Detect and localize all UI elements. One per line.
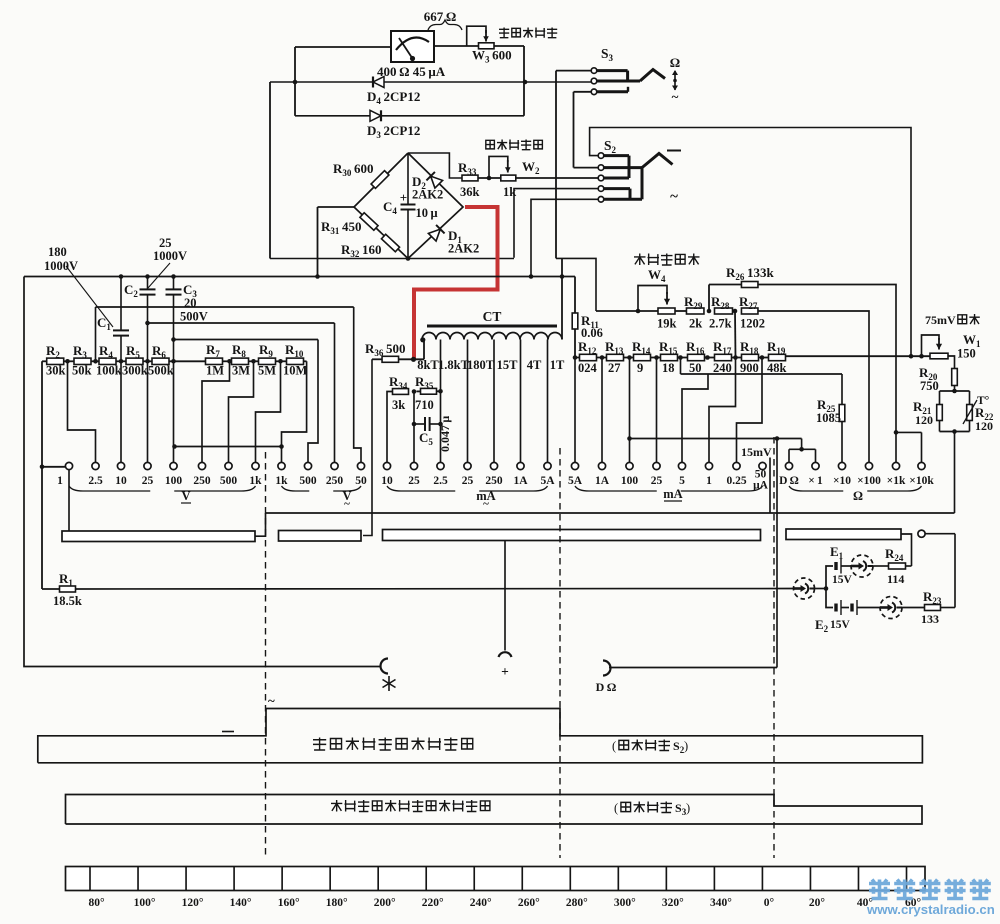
wire: R15/R16 junction down to R25 feed rail xyxy=(680,358,682,375)
switch S2 blade xyxy=(642,154,673,168)
svg-text:CT: CT xyxy=(483,309,502,324)
thermistor R22 120 with T label xyxy=(969,391,971,404)
resistor R16 50 xyxy=(688,354,705,360)
svg-text:50: 50 xyxy=(355,475,367,487)
wire: bus to R11 xyxy=(574,277,576,314)
wire: branch to terminal 5mA xyxy=(682,374,708,463)
svg-text:2.5: 2.5 xyxy=(433,475,448,487)
svg-text:180T: 180T xyxy=(467,358,495,372)
current transformer CT winding xyxy=(422,333,562,340)
battery E2 15V (two cells) xyxy=(826,589,833,608)
section brace V xyxy=(69,486,150,491)
wire + junction W2 wiper node xyxy=(478,177,501,179)
wire: W3 right down to D4/D3 lines xyxy=(523,46,525,116)
resistor R18 900 xyxy=(742,354,759,360)
svg-text:25: 25 xyxy=(462,475,474,487)
resistor R27 1202 xyxy=(741,308,758,314)
potentiometer W1 150 with wiper xyxy=(930,353,948,359)
wire: line1 to terminal 50~ xyxy=(354,307,361,463)
wire: R7/R8 junction to terminal 250 xyxy=(202,361,230,462)
current transformer CT core xyxy=(427,325,557,328)
wire: pair bottom to slider rail xyxy=(940,431,970,433)
svg-text:15V: 15V xyxy=(832,574,853,586)
resistor R36 500 xyxy=(372,358,382,360)
svg-text:10M: 10M xyxy=(283,364,308,378)
svg-text:): ) xyxy=(684,739,688,753)
svg-text:200°: 200° xyxy=(374,897,396,909)
svg-text:80°: 80° xyxy=(88,897,105,909)
svg-text:5A: 5A xyxy=(568,475,583,487)
svg-text:9: 9 xyxy=(637,361,643,375)
svg-text:~: ~ xyxy=(483,498,489,510)
diode D1 2AK2 (bridge bottom-right) xyxy=(428,225,445,242)
svg-text:300°: 300° xyxy=(614,897,636,909)
resistor R4 100k xyxy=(99,358,116,364)
capacitor C5 0.047u xyxy=(413,392,415,463)
svg-text:25: 25 xyxy=(159,236,172,250)
resistor R35 710 xyxy=(421,388,437,394)
svg-text:180°: 180° xyxy=(326,897,348,909)
section brace ohm xyxy=(789,486,843,491)
connector plug P3 xyxy=(880,597,902,619)
svg-text:150: 150 xyxy=(957,347,976,361)
svg-text:1: 1 xyxy=(706,475,712,487)
svg-text:2AK2: 2AK2 xyxy=(448,242,479,256)
wire: R1 line to battery plug xyxy=(76,588,794,591)
svg-text:30k: 30k xyxy=(46,364,66,378)
cam ohm AC/DC control profile (S3) xyxy=(66,795,923,825)
slider bar V~ range xyxy=(279,531,362,542)
svg-text:8kT: 8kT xyxy=(417,358,439,372)
svg-text:19k: 19k xyxy=(657,317,677,331)
wire: C1 column to terminal 10 xyxy=(120,361,122,462)
wire: mA slider bar center tap to + socket xyxy=(504,541,506,651)
resistor R19 48k xyxy=(769,354,786,360)
svg-text:+: + xyxy=(501,664,509,679)
resistor R7 1M xyxy=(206,358,223,364)
svg-text:160°: 160° xyxy=(278,897,300,909)
resistor R31 450 (bridge bottom-left) xyxy=(360,213,378,230)
wire: bridge left node to bus xyxy=(318,206,355,208)
wire: W2 to S2 contact3 xyxy=(516,177,598,179)
svg-text:120: 120 xyxy=(975,419,993,433)
wire: S2 contact4 to bridge bottom xyxy=(514,189,598,258)
svg-text:400 Ω 45 μA: 400 Ω 45 μA xyxy=(377,64,446,79)
resistor R29 2k xyxy=(686,308,704,314)
wire: D4 line left corner down to bridge bottom line xyxy=(269,82,271,259)
svg-text:~: ~ xyxy=(672,89,679,104)
wire: W4 row xyxy=(596,310,658,312)
svg-text:4T: 4T xyxy=(527,358,542,372)
svg-text:100: 100 xyxy=(165,475,183,487)
resistor R33 36k xyxy=(462,175,478,181)
svg-text:2.7k: 2.7k xyxy=(709,317,732,331)
svg-text:1000V: 1000V xyxy=(153,249,187,263)
wire: S2 contact1 feed from meter line xyxy=(590,128,911,357)
svg-text:710: 710 xyxy=(415,398,434,412)
junction battery node xyxy=(815,588,827,590)
svg-text:750: 750 xyxy=(920,379,939,393)
wire: CT secondary right end to bus xyxy=(561,258,563,339)
svg-text:18.5k: 18.5k xyxy=(53,594,82,608)
wire: R24 up to ohm slider bar xyxy=(906,565,912,567)
capacitor C4 10u electrolytic (bridge center) xyxy=(407,153,409,204)
wire: S3 contact1 rail down to W4 line xyxy=(556,258,596,311)
svg-text:~: ~ xyxy=(268,693,275,708)
svg-text:1.8kT: 1.8kT xyxy=(438,358,470,372)
battery E1 15V xyxy=(826,566,833,589)
svg-text:15mV: 15mV xyxy=(741,445,772,459)
connector plug P1 (meter jack) xyxy=(794,578,815,599)
svg-text:75mV: 75mV xyxy=(925,313,956,327)
resistor R17 240 xyxy=(715,354,732,360)
switch S3 blade xyxy=(640,70,665,82)
svg-text:×100: ×100 xyxy=(857,475,881,487)
wire: chain to terminal 25mA xyxy=(656,358,658,463)
svg-text:2.5: 2.5 xyxy=(88,475,103,487)
socket D-ohm xyxy=(603,661,611,676)
degree scale ruler xyxy=(66,867,926,891)
section brace V~ xyxy=(282,486,310,491)
svg-text:340°: 340° xyxy=(710,897,732,909)
wire: S2 contact5 to main bus xyxy=(531,199,598,276)
svg-text:1: 1 xyxy=(57,475,63,487)
svg-text:0.047 μ: 0.047 μ xyxy=(438,416,452,452)
wire: chain to terminal 1A xyxy=(601,358,603,463)
wire: bracket feeding D-ohm and x1 terminals xyxy=(801,439,803,450)
svg-text:1k: 1k xyxy=(249,475,262,487)
svg-text:10 μ: 10 μ xyxy=(416,206,438,220)
svg-text:180: 180 xyxy=(48,245,67,259)
dashed separator line 2 xyxy=(559,448,561,858)
terminals mA~ range xyxy=(383,462,390,469)
wire: R27 to x100 terminal xyxy=(758,311,869,463)
wire: left rail to star socket xyxy=(24,277,381,667)
junction dots mA chain xyxy=(573,355,578,360)
svg-text:(: ( xyxy=(612,739,616,753)
svg-text:www.crystalradio.cn: www.crystalradio.cn xyxy=(866,902,995,917)
resistor R10 10M xyxy=(287,358,304,364)
svg-text:1A: 1A xyxy=(513,475,528,487)
label cam ohm AC/DC control text xyxy=(331,800,342,812)
wire: R34 left to terminal 10~ xyxy=(387,392,393,463)
wire: line2 to terminal 250~ xyxy=(334,323,336,463)
svg-text:220°: 220° xyxy=(422,897,444,909)
wire: R8/R9 junction to terminal 500 xyxy=(229,361,254,462)
wire: C3 column to terminal 100 xyxy=(173,361,175,462)
svg-text:R32 160: R32 160 xyxy=(341,242,382,259)
wire: 15mV rail xyxy=(266,512,955,514)
wire: red highlighted path bridge right to CT input xyxy=(414,207,498,359)
svg-text:100k: 100k xyxy=(96,364,122,378)
svg-text:5: 5 xyxy=(679,475,685,487)
wire: line2 from C2 to 250V~ terminal xyxy=(148,322,335,324)
svg-text:900: 900 xyxy=(740,361,759,375)
resistor R11 0.06 (shunt) xyxy=(572,313,578,329)
connector plug P2 xyxy=(851,555,873,577)
svg-text:×10: ×10 xyxy=(833,475,851,487)
resistor R25 1085 xyxy=(841,374,843,404)
wire: bridge diamond xyxy=(354,153,408,259)
svg-text:3M: 3M xyxy=(232,364,250,378)
label zero-ohm adjust (ling ou mu tiao jie) xyxy=(634,254,646,266)
wire: S2 contact2 from S3 contact3 xyxy=(574,167,599,169)
wire: 500V rail (line1) xyxy=(96,306,354,308)
svg-text:140°: 140° xyxy=(230,897,252,909)
svg-text:024: 024 xyxy=(578,361,598,375)
wire: S3 contact1 to lower rail xyxy=(556,70,591,72)
svg-text:×10k: ×10k xyxy=(909,475,934,487)
resistor R9 5M xyxy=(259,358,276,364)
slider bar ohm range xyxy=(786,529,901,540)
junction dots meter loop xyxy=(293,80,298,85)
svg-text:100°: 100° xyxy=(134,897,156,909)
capacitor C1 (column to R4/R5 junction) xyxy=(120,277,122,331)
svg-text:300k: 300k xyxy=(122,364,148,378)
svg-text:× 1: × 1 xyxy=(808,475,823,487)
svg-text:25: 25 xyxy=(651,475,663,487)
wire: R25 feed rail xyxy=(681,373,843,375)
dashed separator line 1 xyxy=(265,452,267,858)
wire: meter loop left vertical xyxy=(294,47,296,116)
label DC / AC selector of S2 xyxy=(667,150,681,152)
section brace mA xyxy=(575,486,657,491)
wire: R26 to x1k x10k bracket xyxy=(758,285,896,433)
terminals mA range xyxy=(571,462,578,469)
svg-text:114: 114 xyxy=(887,572,904,586)
wire: R21/R22 parallel pair top xyxy=(940,390,970,392)
svg-text:25: 25 xyxy=(142,475,154,487)
svg-text:Ω: Ω xyxy=(670,55,680,70)
svg-text:1202: 1202 xyxy=(740,317,765,331)
svg-text:100: 100 xyxy=(621,475,639,487)
resistor R15 18 xyxy=(661,354,678,360)
wire: chain to terminal 5A xyxy=(574,358,576,463)
svg-text:20: 20 xyxy=(184,296,197,310)
resistor R30 600 (bridge top-left) xyxy=(371,171,389,189)
svg-text:D Ω: D Ω xyxy=(596,680,617,694)
potentiometer W2 1k with wiper arrow xyxy=(501,175,516,181)
svg-text:1000V: 1000V xyxy=(44,259,78,273)
wire: terminal 1 to V slider bar xyxy=(68,470,70,531)
svg-text:48k: 48k xyxy=(767,361,787,375)
capacitor C3 20 xyxy=(173,277,175,290)
svg-text:2k: 2k xyxy=(689,317,702,331)
wire: line3 to terminal 500~ xyxy=(308,340,318,463)
resistor R13 27 xyxy=(607,354,624,360)
wire: CT taps to mA~ terminals xyxy=(440,340,442,392)
svg-text:D4 2CP12: D4 2CP12 xyxy=(367,89,420,106)
svg-text:): ) xyxy=(686,801,690,815)
svg-text:V: V xyxy=(181,489,190,503)
svg-text:250: 250 xyxy=(485,475,503,487)
resistor R6 500k xyxy=(152,358,169,364)
terminals V~ range xyxy=(278,462,285,469)
svg-text:120: 120 xyxy=(915,413,933,427)
wire: bridge top to R33 xyxy=(408,153,462,178)
terminals ohm range xyxy=(785,462,792,469)
wire: 15mV node riser xyxy=(769,458,771,514)
svg-text:500: 500 xyxy=(220,475,238,487)
svg-text:0.06: 0.06 xyxy=(581,326,603,340)
svg-text:1k: 1k xyxy=(275,475,288,487)
svg-text:3k: 3k xyxy=(392,398,405,412)
svg-text:1085: 1085 xyxy=(816,411,841,425)
svg-text:1A: 1A xyxy=(595,475,610,487)
wire: link 100V column to 1kV~ column xyxy=(175,446,282,448)
svg-text:500: 500 xyxy=(299,475,317,487)
resistor R32 160 (bridge bottom-left lower) xyxy=(381,234,399,251)
watermark crystalradio xyxy=(869,880,890,900)
svg-text:mA: mA xyxy=(663,487,682,501)
wire: main horizontal bus xyxy=(24,276,575,278)
diode D4 2CP12 xyxy=(270,81,594,83)
svg-text:280°: 280° xyxy=(566,897,588,909)
svg-text:250: 250 xyxy=(326,475,344,487)
resistor R5 300k xyxy=(126,358,143,364)
resistor R34 3k xyxy=(393,389,409,395)
wire: R9/R10 junction to terminal 1k xyxy=(256,361,281,462)
svg-text:133: 133 xyxy=(921,612,939,626)
svg-text:~: ~ xyxy=(670,189,678,205)
label AC master adjust (jiao liu zong tiao jie) xyxy=(486,140,495,149)
resistor R14 9 xyxy=(634,354,651,360)
wire: R18/R19 junction to terminal 0.25mA xyxy=(737,358,763,463)
junction dots V chain xyxy=(65,359,70,364)
resistor R12 024 xyxy=(580,354,597,360)
wire: riser from DC-ohm socket xyxy=(776,439,778,668)
wire: D-ohm socket to riser xyxy=(609,667,777,669)
resistor R26 133k xyxy=(741,282,758,288)
svg-text:36k: 36k xyxy=(460,185,480,199)
slider bar mA range xyxy=(383,530,761,541)
svg-text:R30 600: R30 600 xyxy=(333,161,374,178)
svg-text:120°: 120° xyxy=(182,897,204,909)
wire: V divider chain xyxy=(42,360,46,362)
wire: R2/R3 junction to terminal 2.5 xyxy=(68,361,96,462)
wire: ohm slider bar right to R24 xyxy=(901,534,912,566)
wire: R28/R27 junction down to mA chain xyxy=(734,311,737,358)
capacitor C2 xyxy=(147,277,149,290)
svg-text:D3 2CP12: D3 2CP12 xyxy=(367,123,420,140)
svg-text:15T: 15T xyxy=(497,358,519,372)
svg-text:240°: 240° xyxy=(470,897,492,909)
terminal circle beside ohm bar xyxy=(918,530,925,537)
svg-text:10: 10 xyxy=(381,475,393,487)
svg-text:R31 450: R31 450 xyxy=(321,219,362,236)
socket + (plus jack) xyxy=(499,652,512,657)
label cam AC/DC control text xyxy=(313,738,326,751)
svg-text:5M: 5M xyxy=(258,364,276,378)
wire: circle to R23 riser xyxy=(925,533,955,535)
socket star (common) xyxy=(381,659,388,674)
svg-text:W3 600: W3 600 xyxy=(472,48,512,65)
svg-text:D Ω: D Ω xyxy=(779,475,799,487)
svg-text:1k: 1k xyxy=(503,185,516,199)
meter M 400ohm 45uA xyxy=(391,31,434,62)
svg-text:1M: 1M xyxy=(206,364,224,378)
svg-text:27: 27 xyxy=(608,361,621,375)
terminals V range xyxy=(65,462,72,469)
resistor R3 50k xyxy=(74,358,91,364)
resistor R24 114 xyxy=(873,565,889,567)
wire: R10 right to terminal 1k~ xyxy=(282,361,307,462)
svg-text:(: ( xyxy=(614,801,618,815)
svg-text:0°: 0° xyxy=(764,897,775,909)
resistor R20 750 xyxy=(948,356,955,368)
wire: R17/R18 junction to terminal 1mA xyxy=(709,358,736,463)
svg-text:500V: 500V xyxy=(180,310,208,324)
svg-text:1T: 1T xyxy=(550,358,565,372)
svg-text:2AK2: 2AK2 xyxy=(412,188,443,202)
svg-text:+: + xyxy=(400,190,407,205)
svg-text:240: 240 xyxy=(713,361,732,375)
diode D3 2CP12 xyxy=(295,115,524,117)
wire: DC-ohm feed line xyxy=(630,438,802,440)
svg-text:260°: 260° xyxy=(518,897,540,909)
svg-text:R36 500: R36 500 xyxy=(365,341,406,358)
resistor R21 120 xyxy=(939,391,941,404)
svg-text:25: 25 xyxy=(408,475,420,487)
wire: R25 to x10 terminal xyxy=(841,422,843,463)
svg-text:500k: 500k xyxy=(148,364,174,378)
wire: R2 left to terminal 1 and R1 xyxy=(41,361,43,589)
svg-text:20°: 20° xyxy=(809,897,826,909)
slider bar V range xyxy=(62,531,255,542)
section brace mA~ xyxy=(387,486,455,491)
svg-text:R26 133k: R26 133k xyxy=(726,265,774,282)
svg-text:Ω: Ω xyxy=(853,489,863,503)
resistor R2 30k xyxy=(47,358,64,364)
wire: meter loop top xyxy=(295,46,391,48)
wire: R36 left down to V~ slider bar xyxy=(363,359,372,535)
svg-text:10: 10 xyxy=(115,475,127,487)
dashed separator line 3 xyxy=(773,437,775,858)
potentiometer W4 19k with wiper xyxy=(658,308,675,314)
wire: chain to terminal 100mA xyxy=(629,358,631,463)
svg-text:250: 250 xyxy=(193,475,211,487)
wire: bridge bottom line xyxy=(270,258,514,260)
wire: C2 column to terminal 25 xyxy=(147,361,149,462)
label DC master adjust (zhi liu zong tiao jie) xyxy=(499,28,509,38)
svg-text:~: ~ xyxy=(344,498,350,510)
wire: line3 from C3 to 500V~ terminal xyxy=(174,339,319,341)
svg-text:15V: 15V xyxy=(830,619,851,631)
cam AC/DC control profile (S2) xyxy=(38,709,923,763)
resistor R1 18.5k xyxy=(42,588,60,590)
svg-text:×1k: ×1k xyxy=(887,475,906,487)
resistor R23 133 xyxy=(902,607,925,609)
potentiometer W3 600 with wiper arrow xyxy=(479,43,495,49)
wire: S3 contact3 to S2 contact2 xyxy=(574,91,592,93)
wire: riser to CT coil start xyxy=(423,340,425,359)
wire: mA divider chain xyxy=(575,357,580,359)
wire: V slider to 15mV rail xyxy=(255,513,266,536)
svg-text:320°: 320° xyxy=(662,897,684,909)
svg-text:50: 50 xyxy=(689,361,702,375)
diode D2 2AK2 (bridge top-right) xyxy=(426,172,443,189)
svg-text:0.25: 0.25 xyxy=(726,475,746,487)
svg-text:667 Ω: 667 Ω xyxy=(424,9,457,24)
resistor R8 3M xyxy=(232,358,249,364)
resistor R28 2.7k xyxy=(715,308,733,314)
svg-text:5A: 5A xyxy=(540,475,555,487)
wire: R29/R28 junction up to R26 xyxy=(708,285,710,312)
svg-text:50k: 50k xyxy=(72,364,92,378)
svg-text:18: 18 xyxy=(662,361,675,375)
